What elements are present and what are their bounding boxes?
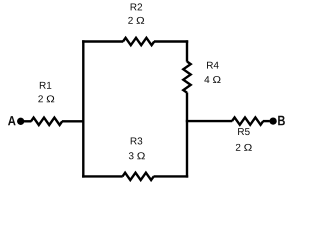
- wire right vertical bottom segment: [186, 93, 188, 178]
- wire top rail left segment: [82, 40, 123, 42]
- wire left vertical branch: [82, 40, 84, 177]
- wire bottom rail right segment: [154, 175, 189, 177]
- resistor R4: [183, 62, 190, 93]
- label R5 value 2 ohm: [236, 144, 241, 151]
- label R1 value 2 ohm: [38, 95, 43, 102]
- node label B: [278, 116, 285, 126]
- label R2: [131, 4, 137, 11]
- wire top rail right segment: [154, 40, 188, 42]
- wire bottom rail left segment: [82, 175, 123, 177]
- label R2 value 2 ohm: [128, 17, 133, 24]
- label R4: [207, 62, 213, 69]
- resistor R3: [123, 173, 154, 180]
- wire R5 to terminal B: [263, 120, 270, 122]
- label R1: [40, 82, 46, 89]
- wire right vertical top segment: [186, 40, 188, 61]
- label R5: [238, 128, 244, 135]
- terminal B dot: [269, 117, 276, 124]
- terminal A dot: [17, 118, 24, 125]
- resistor R5: [232, 117, 263, 124]
- resistor R2: [123, 38, 154, 45]
- label R3: [131, 138, 137, 145]
- resistor R1: [31, 118, 62, 125]
- label R4 value 4 ohm: [204, 76, 209, 83]
- wire terminal A to R1: [24, 120, 32, 122]
- wire R1 to left junction node: [62, 120, 85, 122]
- wire right node to R5: [186, 120, 232, 122]
- label R3 value 3 ohm: [129, 152, 134, 159]
- node label A: [8, 116, 16, 125]
